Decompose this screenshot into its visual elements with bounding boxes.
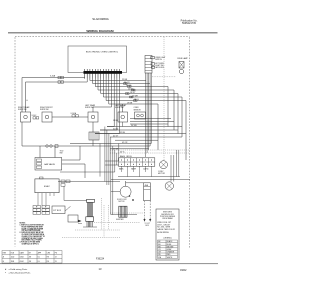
dotted run bottom b: [75, 229, 120, 231]
drop to switch S6: [122, 104, 124, 112]
ladder connector J2: [145, 56, 152, 74]
connector label on switch wire: [71, 112, 77, 115]
dotted vertical bottom 2: [103, 205, 105, 238]
svg-text:41 GY: 41 GY: [113, 135, 119, 137]
door lock motor M2: [111, 181, 144, 197]
dotted wire row 7: [110, 149, 190, 151]
middle bus wire 8: [118, 144, 120, 162]
dotted lamp wire: [152, 76, 176, 78]
spark igniter stack E2: [86, 199, 95, 227]
svg-text:22 BK: 22 BK: [122, 79, 128, 81]
revision table text: [3, 252, 58, 263]
svg-text:MOTOR: MOTOR: [158, 173, 165, 175]
valve label: [60, 151, 65, 155]
drop wire 10: [107, 79, 114, 127]
svg-text:1042: 1042: [11, 257, 15, 259]
svg-text:ESEC: ESEC: [44, 186, 50, 188]
electronic oven control U1: [68, 46, 127, 73]
long wire row 6b: [110, 148, 149, 150]
wire between switches: [52, 116, 88, 118]
terminal block dots: [36, 206, 46, 213]
svg-text:RS: RS: [47, 261, 49, 263]
footer rule: [0, 263, 218, 265]
wire labels on fan: [120, 79, 139, 108]
svg-text:33 OR: 33 OR: [124, 82, 130, 84]
hot surface switch S2: [151, 63, 164, 67]
strip cell drops: [122, 166, 152, 176]
publication number label: [181, 19, 198, 25]
wire mid row a: [105, 160, 119, 162]
svg-text:16 GY: 16 GY: [130, 92, 136, 94]
spark module side connector: [61, 180, 70, 186]
svg-text:BAKE BROIL: BAKE BROIL: [120, 155, 132, 158]
svg-text:03/02: 03/02: [20, 257, 24, 259]
fan wire 4: [98, 79, 174, 131]
drawing number: [96, 257, 105, 260]
dotted run bottom a: [94, 222, 140, 224]
legend table text: [158, 240, 175, 259]
burner switch S5: [85, 104, 98, 122]
ground arrow: [78, 220, 82, 224]
middle bus wire 1: [104, 127, 106, 182]
inline connector 2-102: [32, 115, 39, 119]
wire mid row b: [105, 164, 119, 166]
svg-text:SW: SW: [60, 153, 63, 155]
cabinet dashed border top: [15, 36, 190, 38]
svg-text:FROM REAR: FROM REAR: [162, 217, 173, 220]
svg-text:SWITCH: SWITCH: [155, 59, 162, 61]
latch switch S7: [151, 66, 164, 69]
spark stack feed wire: [64, 186, 87, 200]
svg-text:BY: BY: [29, 253, 31, 255]
svg-text:TO JCT: TO JCT: [145, 223, 151, 225]
fan wire 1: [90, 79, 146, 81]
svg-text:F36224: F36224: [96, 257, 105, 260]
svg-text:WHITE: WHITE: [167, 257, 173, 259]
notes block: [20, 223, 46, 246]
wire valve feed a: [39, 146, 41, 158]
svg-text:ELECTRONIC OVEN CONTROL: ELECTRONIC OVEN CONTROL: [86, 52, 119, 54]
dotted run bottom c: [62, 237, 120, 239]
cooling fan motor M3: [165, 182, 173, 190]
right riser 1: [170, 155, 172, 182]
left burner switch S4: [40, 107, 53, 122]
wire valve feed b: [54, 146, 56, 158]
fan wire 5: [101, 79, 178, 134]
right riser 3: [175, 150, 177, 177]
svg-text:DL: DL: [38, 257, 40, 259]
svg-text:14 RD: 14 RD: [126, 85, 132, 87]
surface element strip HE1: [119, 155, 155, 166]
bundle wire b: [146, 73, 148, 153]
burner switch S6: [115, 105, 128, 122]
svg-text:42 OR: 42 OR: [122, 142, 128, 144]
oven sensor RT1: [134, 107, 146, 119]
svg-text:15 BU: 15 BU: [128, 89, 134, 91]
svg-text:DOOR LOCK: DOOR LOCK: [117, 199, 128, 201]
svg-text:= Non-Illustrated Parts: = Non-Illustrated Parts: [9, 271, 32, 274]
inline connectors on fan wires: [124, 83, 138, 102]
inline connector on left wires: [58, 76, 64, 83]
wire mid row f: [58, 181, 120, 183]
middle bus wire 6: [114, 150, 116, 172]
svg-text:05/02: 05/02: [20, 261, 24, 263]
bundle wire c: [148, 73, 150, 150]
jct box curved wire: [65, 207, 71, 211]
svg-text:SURF SW: SURF SW: [40, 109, 49, 111]
junction dot: [132, 199, 134, 201]
wire below switch S3: [21, 122, 23, 146]
spark module A1: [35, 177, 59, 193]
wire valve out b: [62, 164, 85, 178]
svg-text:B: B: [3, 261, 4, 263]
transformer lead arrow 1: [143, 201, 145, 222]
vertical from row 5: [99, 144, 101, 177]
svg-text:17 WH: 17 WH: [132, 96, 138, 98]
svg-text:SURF SW: SURF SW: [85, 107, 94, 109]
fan wire 7: [106, 79, 186, 161]
fan wire 2: [93, 79, 150, 84]
svg-text:30 WH: 30 WH: [131, 125, 137, 127]
svg-text:*: *: [5, 272, 6, 274]
title WIRING DIAGRAM: [86, 29, 114, 33]
svg-text:#: #: [5, 269, 7, 271]
long wire row 4b: [115, 139, 158, 141]
dotted vertical bottom: [100, 198, 102, 230]
long wire row 4: [110, 136, 182, 138]
oven lamp assembly DS1: [177, 57, 189, 74]
svg-text:= Field wiring Parts: = Field wiring Parts: [9, 268, 29, 271]
spark stack base wire: [83, 226, 97, 228]
footer date: [180, 268, 187, 272]
svg-text:31 RD: 31 RD: [113, 129, 119, 131]
fan wire 8: [109, 79, 158, 151]
long wire row 0c: [130, 123, 168, 125]
long wire row 1: [107, 126, 182, 128]
mid wire labels: [113, 120, 137, 154]
legend box: [156, 209, 179, 260]
wire valve out: [62, 146, 80, 160]
bundle wire a: [145, 73, 147, 157]
header rule: [8, 32, 218, 34]
fan wire 6: [103, 79, 182, 138]
footer field wiring note: [5, 268, 31, 275]
long wire row 0a: [130, 118, 171, 120]
svg-text:54 BK: 54 BK: [113, 120, 119, 122]
svg-text:GAUGE THEN COLOR: GAUGE THEN COLOR: [157, 228, 175, 231]
svg-text:BLACK: BLACK: [167, 240, 173, 243]
left wire label: [50, 75, 56, 78]
svg-text:SURF SW: SURF SW: [115, 107, 124, 109]
middle bus wire 7: [116, 153, 118, 165]
svg-text:MOTOR: MOTOR: [119, 201, 126, 203]
middle bus wire 2: [106, 130, 108, 185]
right riser 2: [173, 155, 175, 182]
oven igniter E1: [89, 122, 99, 146]
bundle wire e: [151, 73, 153, 143]
svg-text:GAS VALVE: GAS VALVE: [44, 163, 56, 166]
connector block J3: [52, 206, 65, 214]
svg-text:32 BU: 32 BU: [120, 132, 126, 134]
middle bus wire 4: [110, 137, 112, 215]
footer page number: [99, 267, 102, 271]
svg-text:LATCH SW: LATCH SW: [155, 66, 164, 69]
wire mid row c: [60, 171, 115, 173]
svg-text:DL: DL: [38, 261, 40, 263]
connector bar P1: [84, 69, 123, 79]
cabinet dashed border left: [14, 37, 16, 246]
revision table: [2, 251, 62, 264]
small relay K1: [68, 215, 78, 222]
svg-text:ALUM WIRING: ALUM WIRING: [157, 231, 169, 234]
svg-text:43 BR: 43 BR: [113, 149, 119, 151]
legend table: [158, 240, 178, 259]
svg-text:ORANGE: ORANGE: [167, 251, 175, 254]
middle bus wire 5: [112, 146, 114, 215]
dashed drop left: [107, 205, 109, 230]
svg-text:OVEN LAMP: OVEN LAMP: [177, 57, 189, 60]
console dotted partition: [163, 37, 165, 160]
svg-text:44 YL: 44 YL: [120, 152, 125, 154]
inline connector on switch wire: [72, 115, 79, 117]
svg-text:2. OVEN DOOR MUST BE IN THE: 2. OVEN DOOR MUST BE IN THE: [20, 232, 45, 234]
svg-text:RS: RS: [47, 257, 49, 259]
svg-text:19 BR: 19 BR: [127, 103, 133, 105]
dotted igniter feed: [110, 212, 143, 214]
to junction text: [145, 223, 151, 227]
long wire row 0b: [130, 121, 174, 123]
terminal block TB1: [33, 206, 50, 215]
bundle wire d: [149, 73, 151, 146]
svg-text:NOTES:: NOTES:: [20, 223, 26, 225]
spark module pins: [38, 193, 54, 206]
cabinet dashed border right: [189, 37, 191, 248]
svg-text:13: 13: [55, 261, 57, 263]
long wire row 2: [100, 129, 178, 131]
wire mid row e: [111, 178, 190, 180]
svg-text:SLGF####A: SLGF####A: [92, 17, 109, 21]
svg-text:2-101A: 2-101A: [71, 112, 77, 115]
svg-text:03/02: 03/02: [180, 268, 187, 272]
convection fan motor M1: [158, 161, 168, 175]
svg-text:IGNITER: IGNITER: [116, 219, 124, 221]
left burner switch S3: [18, 106, 31, 122]
vertical from switch S6: [122, 122, 124, 127]
drop wire 12: [95, 79, 120, 134]
dotted wire row 8: [110, 152, 190, 154]
bake igniter feed wire: [111, 214, 137, 216]
gas valve V1: [35, 158, 62, 171]
svg-text:SURF SW: SURF SW: [18, 109, 27, 111]
svg-text:1188: 1188: [11, 261, 14, 263]
long wire row 6 with inline connectors: [22, 145, 150, 147]
svg-text:5995421735: 5995421735: [182, 22, 197, 25]
svg-text:SENSOR: SENSOR: [134, 109, 142, 111]
strip labels below: [119, 167, 149, 170]
right riser 4: [178, 150, 180, 177]
bake igniter E3: [116, 206, 127, 221]
middle bus wire 3: [108, 134, 110, 186]
transformer lead arrow 2: [149, 201, 151, 222]
svg-text:ECN: ECN: [11, 253, 14, 255]
drop wire 11: [100, 79, 117, 131]
door lock motor label: [117, 199, 128, 203]
long wire row 5: [70, 143, 152, 145]
wire mid row d: [118, 176, 180, 178]
hash marks: [27, 100, 29, 102]
svg-text:13: 13: [55, 257, 57, 259]
inline connector pair on row 6: [46, 145, 58, 148]
fan wire 9: [93, 79, 112, 113]
oven light switch S1: [151, 56, 166, 61]
svg-text:(LEGEND): (LEGEND): [163, 238, 172, 240]
fan wire 3: [95, 79, 168, 127]
svg-text:3-10A: 3-10A: [50, 75, 56, 78]
svg-text:18 YL: 18 YL: [134, 99, 139, 101]
wire N to left column: [26, 79, 88, 113]
svg-text:WIRING DIAGRAM: WIRING DIAGRAM: [86, 29, 114, 33]
wire L1 to left column: [22, 78, 85, 113]
svg-text:JCT BOX: JCT BOX: [53, 210, 62, 212]
long wire row 3: [95, 133, 186, 135]
transformer T1: [144, 183, 151, 201]
